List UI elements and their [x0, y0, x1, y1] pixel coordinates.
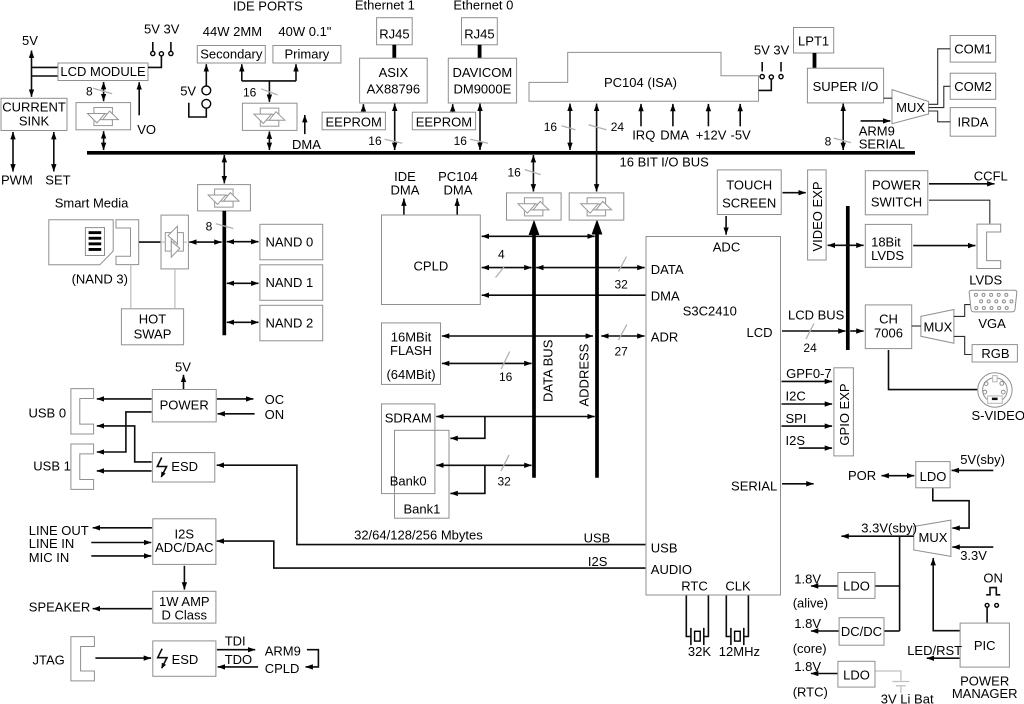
- svg-text:Ethernet 1: Ethernet 1: [355, 0, 415, 12]
- svg-text:SINK: SINK: [19, 114, 50, 129]
- svg-text:MUX: MUX: [919, 530, 948, 545]
- svg-text:I2S: I2S: [786, 433, 806, 448]
- wire POR to LDO: [882, 475, 915, 477]
- node LINE OUT: [29, 523, 89, 538]
- svg-text:5V(sby): 5V(sby): [960, 452, 1005, 467]
- wire CH 7006 to S-VIDEO: [889, 350, 978, 390]
- wire SPI to GPIO EXP: [782, 425, 833, 427]
- wire address branch to Bank1: [450, 417, 485, 439]
- svg-text:8: 8: [825, 134, 832, 148]
- label VO: [137, 122, 156, 137]
- LVDS connector: [977, 224, 1001, 268]
- NAND 1 flash: [260, 265, 323, 301]
- wire video bus to CH 7006: [850, 330, 863, 332]
- ESD protection U-ESD2: [153, 641, 216, 676]
- svg-text:RJ45: RJ45: [379, 27, 409, 42]
- svg-text:SET: SET: [45, 173, 70, 188]
- svg-text:32/64/128/256 Mbytes: 32/64/128/256 Mbytes: [354, 528, 483, 543]
- wire CPLD PC104 DMA: [456, 199, 458, 216]
- wire CPLD to address bus: [482, 235, 595, 237]
- label 4 (CPLD): [498, 247, 505, 261]
- svg-text:DC/DC: DC/DC: [841, 624, 882, 639]
- node ON (USB): [265, 407, 285, 422]
- svg-text:8: 8: [86, 85, 93, 99]
- buffer U-LCD (bus transceiver): [76, 103, 131, 130]
- svg-text:LVDS: LVDS: [871, 248, 904, 263]
- wire FLASH to address bus: [442, 335, 593, 337]
- USB 0 connector: [71, 389, 94, 434]
- node MIC IN: [29, 550, 69, 565]
- svg-text:NAND 1: NAND 1: [266, 275, 314, 290]
- wire codec to amp: [183, 566, 185, 590]
- svg-text:18Bit: 18Bit: [871, 234, 901, 249]
- wire I/O bus to buffer U-NAND: [223, 155, 225, 183]
- svg-text:SERIAL: SERIAL: [859, 137, 905, 152]
- node PWM: [1, 173, 33, 188]
- wire GPF0-7 to GPIO EXP: [782, 380, 833, 382]
- wire JTAG chain loop: [306, 650, 319, 667]
- label Ethernet 0: [453, 0, 513, 12]
- label (alive): [793, 596, 828, 611]
- svg-text:RGB: RGB: [981, 346, 1009, 361]
- wire CPLD IDE DMA: [403, 199, 405, 216]
- svg-text:LDO: LDO: [920, 469, 947, 484]
- wire SDRAM to data bus (32): [436, 464, 531, 466]
- svg-text:Primary: Primary: [285, 47, 330, 62]
- wire 3.3V(sby) rail: [899, 536, 901, 631]
- slash 16-bit buffer: [525, 170, 541, 175]
- node 5V (USB power): [175, 360, 191, 375]
- svg-text:ESD: ESD: [172, 652, 199, 667]
- label 8 (LCD data width): [86, 85, 93, 99]
- wire NAND local bus (8 bit): [222, 211, 226, 335]
- svg-text:ADR: ADR: [651, 330, 678, 345]
- wire PC104 to buffer (24): [596, 104, 598, 192]
- wire LCD MODULE to 5V/3V jumper: [148, 56, 161, 68]
- label DMA (IDE): [292, 137, 321, 152]
- wire ESD1 to USB 0: [97, 426, 152, 462]
- svg-text:SPEAKER: SPEAKER: [29, 599, 90, 614]
- slash 16-bit FLASH: [501, 352, 510, 370]
- label TDO: [225, 652, 252, 667]
- svg-text:1.8V: 1.8V: [794, 571, 821, 586]
- bus ADDRESS (vertical): [592, 219, 603, 478]
- wire TDI (ESD2 to ARM9): [217, 649, 255, 651]
- svg-text:LCD BUS: LCD BUS: [788, 308, 845, 323]
- node 5V (LCD supply): [22, 33, 38, 48]
- label PC104 DMA line1: [438, 169, 478, 184]
- node 3.3V: [960, 548, 987, 563]
- label USB 0: [29, 405, 67, 420]
- LDO (1.8V alive): [838, 573, 875, 599]
- wire data branch to Bank1: [450, 465, 485, 493]
- POWER SWITCH (backlight): [865, 171, 928, 215]
- wire -5V: [739, 104, 741, 126]
- label 32K: [688, 644, 711, 659]
- label 16 (IDE): [243, 85, 257, 99]
- svg-text:ADDRESS: ADDRESS: [577, 343, 592, 406]
- svg-text:1W AMP: 1W AMP: [159, 594, 210, 609]
- wire SUPER I/O to I/O bus (8): [842, 104, 844, 150]
- label 5V 3V (PC104): [754, 43, 790, 58]
- svg-text:GPF0-7: GPF0-7: [786, 366, 832, 381]
- crystal X1 32K: [686, 596, 708, 646]
- svg-text:IRQ: IRQ: [632, 128, 655, 143]
- I2S ADC/DAC codec: [153, 519, 216, 565]
- svg-text:DATA BUS: DATA BUS: [540, 339, 555, 402]
- svg-text:SPI: SPI: [786, 411, 807, 426]
- ESD protection U-ESD1: [152, 453, 214, 482]
- label ADDRESS: [577, 343, 592, 406]
- label IDE DMA line2: [391, 182, 420, 197]
- buffer U-A (bus transceiver A): [507, 193, 562, 220]
- svg-text:CLK: CLK: [725, 579, 751, 594]
- buffer U-SM (hot swap transceiver): [161, 215, 188, 269]
- svg-text:PC104 (ISA): PC104 (ISA): [604, 75, 677, 90]
- wire data bus to S3C2410 DATA (32): [536, 267, 644, 269]
- SmartMedia card: [49, 220, 113, 265]
- wire POWER to USB 0: [97, 398, 152, 400]
- svg-text:IRDA: IRDA: [957, 115, 988, 130]
- SmartMedia socket connector: [116, 220, 139, 265]
- wire RJ45 to DAVICOM: [478, 45, 482, 58]
- svg-text:16 BIT I/O BUS: 16 BIT I/O BUS: [620, 154, 710, 169]
- svg-text:16: 16: [544, 120, 558, 134]
- 1W AMP D Class: [153, 591, 216, 623]
- svg-text:Ethernet 0: Ethernet 0: [453, 0, 513, 12]
- NAND 0 flash: [260, 224, 323, 259]
- label Ethernet 1: [355, 0, 415, 12]
- wire socket to buffer U-SM: [139, 241, 160, 243]
- svg-text:GPIO EXP: GPIO EXP: [837, 383, 852, 445]
- wire IDE to buffer (16 bit): [268, 81, 270, 102]
- node 1.8V (core): [794, 616, 821, 631]
- label 8 (NAND): [206, 219, 213, 233]
- svg-text:40W 0.1": 40W 0.1": [278, 24, 331, 39]
- label GPF0-7: [786, 366, 832, 381]
- svg-text:SCREEN: SCREEN: [722, 196, 776, 211]
- wire CURRENT SINK to PWM: [12, 132, 14, 172]
- label 16 (FLASH): [499, 370, 513, 384]
- label 16 (DAVICOM): [454, 134, 468, 148]
- label I2C: [786, 388, 806, 403]
- svg-text:DMA: DMA: [660, 128, 689, 143]
- svg-text:TOUCH: TOUCH: [726, 178, 772, 193]
- wire CPLD to data bus (4): [482, 267, 532, 269]
- svg-text:ADC/DAC: ADC/DAC: [155, 540, 214, 555]
- svg-text:ARM9: ARM9: [265, 643, 301, 658]
- svg-text:DMA: DMA: [292, 137, 321, 152]
- svg-text:CURRENT: CURRENT: [2, 100, 66, 115]
- wire 5V stub to jumper: [189, 103, 207, 117]
- label USB (bus): [584, 531, 611, 546]
- label 24 (PC104): [611, 120, 625, 134]
- svg-text:LPT1: LPT1: [798, 34, 829, 49]
- wire SUPER I/O to mux: [884, 97, 892, 99]
- wire button to PIC: [986, 607, 988, 622]
- wire LDO alive output: [811, 585, 838, 587]
- svg-text:DMA: DMA: [391, 182, 420, 197]
- wire rail to DC/DC: [885, 630, 900, 632]
- label POWER (manager) line2: [952, 686, 1018, 701]
- label IDE DMA line1: [394, 169, 416, 184]
- COM2 port: [950, 73, 996, 99]
- wire LINE IN: [91, 542, 151, 544]
- svg-text:SWITCH: SWITCH: [871, 195, 922, 210]
- LCD MODULE: [58, 63, 148, 81]
- node 5V (IDE jumper): [180, 83, 196, 98]
- wire 5V to LCD MODULE / CURRENT SINK: [31, 51, 33, 97]
- svg-text:32: 32: [498, 475, 512, 489]
- svg-text:VGA: VGA: [978, 316, 1006, 331]
- DAVICOM DM9000E: [448, 58, 516, 103]
- S-VIDEO connector (mini-DIN): [978, 373, 1012, 407]
- label USB 1: [33, 458, 71, 473]
- label 27 (ADR): [615, 344, 629, 358]
- label SPI: [786, 411, 807, 426]
- wire +12V: [707, 104, 709, 126]
- wire MIC IN: [91, 555, 151, 557]
- wire CH 7006 to video mux: [912, 325, 921, 327]
- svg-text:EEPROM: EEPROM: [416, 114, 472, 129]
- slash 24-bit LCD: [806, 324, 814, 340]
- label I2S (GPIO): [786, 433, 806, 448]
- wire SDRAM to address bus: [436, 416, 594, 418]
- svg-text:POR: POR: [848, 468, 876, 483]
- svg-text:TDO: TDO: [225, 652, 252, 667]
- slash 16-bit PC104: [562, 126, 576, 130]
- label POWER (manager) line1: [960, 674, 1009, 689]
- wire PIC LED/RST out: [927, 657, 960, 659]
- HOT SWAP controller: [121, 309, 183, 345]
- label (NAND 3): [72, 272, 128, 287]
- slash 16-bit DAVICOM: [470, 139, 488, 143]
- svg-text:TDI: TDI: [225, 634, 246, 649]
- wire 5V(sby) to LDO: [952, 469, 994, 471]
- svg-text:MUX: MUX: [896, 100, 925, 115]
- wire LDO RTC output: [811, 673, 838, 675]
- slash 8-bit LCD: [93, 88, 112, 94]
- wire DC/DC core output: [811, 630, 839, 632]
- svg-text:3.3V: 3.3V: [960, 548, 987, 563]
- svg-text:OC: OC: [265, 392, 285, 407]
- wire DAVICOM to I/O bus (16): [479, 104, 481, 150]
- svg-text:COM2: COM2: [954, 79, 992, 94]
- svg-text:FLASH: FLASH: [390, 343, 432, 358]
- svg-text:24: 24: [803, 341, 817, 355]
- svg-text:AUDIO: AUDIO: [651, 562, 692, 577]
- wire buffer U-SM to NAND bus: [189, 241, 221, 243]
- mux U-VID (video mux): [921, 310, 954, 344]
- label IDE PORTS: [233, 0, 303, 13]
- node OC: [265, 392, 285, 407]
- svg-text:CPLD: CPLD: [414, 258, 449, 273]
- svg-text:44W 2MM: 44W 2MM: [203, 24, 262, 39]
- SUPER I/O: [807, 68, 883, 103]
- label SERIAL (ARM9): [859, 137, 905, 152]
- svg-text:IDE PORTS: IDE PORTS: [233, 0, 303, 13]
- svg-text:LINE IN: LINE IN: [29, 536, 75, 551]
- node CPLD (JTAG): [265, 661, 300, 676]
- wire Primary branch: [295, 64, 297, 81]
- svg-text:5V: 5V: [22, 33, 38, 48]
- mux U-SER (serial mux): [892, 90, 929, 124]
- svg-text:COM1: COM1: [954, 42, 992, 57]
- RGB port: [972, 345, 1017, 362]
- svg-text:MUX: MUX: [923, 320, 952, 335]
- svg-text:24: 24: [611, 120, 625, 134]
- slash 32-bit SDRAM: [501, 455, 509, 471]
- label VGA: [978, 316, 1006, 331]
- svg-text:5V: 5V: [180, 83, 196, 98]
- svg-text:ON: ON: [983, 571, 1003, 586]
- wire VIDEO EXP to 18Bit LVDS: [828, 244, 864, 246]
- svg-text:12MHz: 12MHz: [719, 644, 760, 659]
- wire LPT1 to SUPER I/O: [813, 53, 817, 68]
- label 32/64/128/256 Mbytes: [354, 528, 483, 543]
- svg-text:32K: 32K: [688, 644, 711, 659]
- buffer U-NAND (bus transceiver): [198, 185, 251, 211]
- RJ45 connector (Ethernet 1): [377, 18, 413, 45]
- svg-text:16: 16: [508, 166, 522, 180]
- svg-text:LDO: LDO: [843, 579, 870, 594]
- svg-text:Smart Media: Smart Media: [55, 196, 129, 211]
- label LVDS: [969, 272, 1002, 287]
- slash 16-bit IDE: [261, 89, 278, 95]
- wire POWER SWITCH to CCFL: [929, 183, 995, 185]
- wire mux to COM2: [929, 86, 951, 107]
- wire mux to COM1: [929, 49, 951, 105]
- VGA connector (DB15): [969, 290, 1017, 312]
- label 32 (SDRAM): [498, 475, 512, 489]
- wire mux to IRDA: [929, 111, 951, 122]
- slash 24-bit PC104: [589, 125, 607, 130]
- mux U-PWR (power mux): [914, 520, 951, 556]
- label ARM9 (serial): [859, 123, 895, 138]
- CH 7006 video encoder: [865, 305, 911, 349]
- wire JTAG to ESD2: [95, 657, 151, 659]
- svg-text:ON: ON: [265, 407, 285, 422]
- node 3.3V(sby): [861, 521, 917, 536]
- PC104 (ISA) connector block: [529, 52, 759, 101]
- wire TOUCH SCREEN to ADC: [725, 216, 727, 235]
- svg-text:(alive): (alive): [793, 596, 828, 611]
- wire LCD MODULE to buffer (8 bit): [103, 82, 105, 101]
- wire TDO (ARM9 to ESD2): [218, 666, 259, 668]
- wire EEPROM to DAVICOM: [452, 104, 454, 112]
- svg-text:1.8V: 1.8V: [794, 659, 821, 674]
- jumper 5V/3V (LCD voltage select): [151, 42, 173, 56]
- label 40W 0.1&quot;: [278, 24, 331, 39]
- slash 4-bit CPLD: [496, 267, 505, 278]
- buffer U-B (bus transceiver B): [569, 193, 624, 220]
- svg-text:I2S: I2S: [588, 554, 608, 569]
- wire S3C2410 LCD to video bus: [782, 330, 846, 332]
- label 16 BIT I/O BUS: [620, 154, 710, 169]
- svg-text:4: 4: [498, 247, 505, 261]
- svg-text:RJ45: RJ45: [464, 27, 494, 42]
- svg-text:8: 8: [206, 219, 213, 233]
- wire LDO to power mux: [933, 488, 969, 528]
- LDO (1.8V RTC): [838, 661, 875, 687]
- wire socket to HOT SWAP: [130, 265, 132, 309]
- wire DMA annotation arrow: [304, 115, 306, 134]
- svg-text:CPLD: CPLD: [265, 661, 300, 676]
- svg-text:MIC IN: MIC IN: [29, 550, 69, 565]
- SDRAM Bank1: [395, 430, 450, 518]
- label LCD BUS: [788, 308, 845, 323]
- wire FLASH to data bus (16): [442, 362, 532, 364]
- node SET: [45, 173, 70, 188]
- label DATA BUS: [540, 339, 555, 402]
- label TDI: [225, 634, 246, 649]
- label 5V 3V (LCD): [144, 22, 180, 37]
- wire POWER to USB 1: [97, 412, 152, 452]
- svg-text:(64MBit): (64MBit): [386, 367, 435, 382]
- svg-text:POWER: POWER: [872, 178, 921, 193]
- wire LCD MODULE 5V stub: [32, 66, 59, 68]
- wire video mux to VGA: [954, 305, 972, 317]
- wire buffer U-IDE to I/O bus: [268, 132, 270, 151]
- svg-text:JTAG: JTAG: [33, 652, 65, 667]
- svg-text:-5V: -5V: [731, 128, 752, 143]
- node CCFL: [974, 169, 1008, 184]
- wire I2S to GPIO EXP: [799, 447, 832, 449]
- node 1.8V (alive): [794, 571, 821, 586]
- label 12MHz: [719, 644, 760, 659]
- svg-text:Bank0: Bank0: [390, 473, 427, 488]
- label 3V Li Bat: [881, 691, 934, 704]
- svg-text:7006: 7006: [874, 325, 903, 340]
- wire I/O bus to buffer U-A: [532, 155, 534, 192]
- wire IRQ: [640, 104, 642, 126]
- NAND 2 flash: [260, 305, 323, 341]
- svg-text:32: 32: [615, 278, 629, 292]
- svg-text:SUPER I/O: SUPER I/O: [813, 79, 879, 94]
- svg-text:SWAP: SWAP: [134, 326, 172, 341]
- node POR: [848, 468, 876, 483]
- wire NAND bus to NAND 2: [227, 321, 259, 323]
- slash 32-bit DATA: [619, 257, 627, 272]
- wire video expansion bus: [846, 206, 850, 350]
- svg-text:LCD MODULE: LCD MODULE: [60, 64, 146, 79]
- svg-text:EEPROM: EEPROM: [326, 114, 382, 129]
- CPLD: [382, 215, 481, 305]
- slash 8-bit Super I/O: [834, 138, 851, 143]
- svg-text:I2C: I2C: [786, 388, 806, 403]
- svg-text:(core): (core): [793, 641, 827, 656]
- CURRENT SINK: [1, 98, 67, 130]
- wire PC104 to I/O bus (16): [569, 104, 571, 150]
- svg-text:27: 27: [615, 344, 629, 358]
- svg-text:ASIX: ASIX: [379, 65, 409, 80]
- wire PIC to power mux: [933, 558, 959, 631]
- svg-text:3V Li Bat: 3V Li Bat: [881, 691, 934, 704]
- svg-text:LDO: LDO: [843, 667, 870, 682]
- VIDEO EXP connector: [808, 170, 827, 260]
- svg-text:NAND 0: NAND 0: [266, 234, 314, 249]
- wire ON to POWER: [218, 413, 255, 415]
- label S-VIDEO: [972, 408, 1024, 423]
- svg-text:Bank1: Bank1: [403, 501, 440, 516]
- wire 16-bit I/O bus (main horizontal bus): [87, 151, 915, 155]
- wire address bus to S3C2410 ADR (27): [601, 335, 644, 337]
- jumper J-IDE 5V enable: [202, 86, 211, 108]
- label 16 (ASIX): [368, 134, 382, 148]
- IDE Primary port: [273, 46, 341, 64]
- LDO (5V standby): [916, 462, 950, 488]
- node SPEAKER: [29, 599, 90, 614]
